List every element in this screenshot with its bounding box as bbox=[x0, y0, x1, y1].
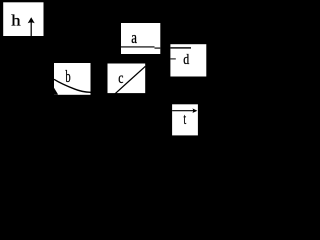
box h (y-axis label patch) bbox=[3, 2, 43, 36]
axis arrow up (head) bbox=[28, 17, 35, 23]
curve a left segment bbox=[121, 46, 155, 47]
box t (x-axis label patch) bbox=[172, 104, 198, 135]
svg-text:c: c bbox=[118, 70, 123, 87]
axis arrow up (shaft) bbox=[30, 20, 32, 36]
svg-text:h: h bbox=[11, 13, 21, 30]
curve a right segment (step down) bbox=[155, 48, 161, 49]
tick on d patch left edge bbox=[170, 58, 175, 59]
black cut at bottom-left of b patch bbox=[54, 88, 58, 95]
axis arrow right (head) bbox=[192, 108, 197, 113]
box a (curve a patch) bbox=[121, 23, 160, 54]
svg-text:a: a bbox=[131, 28, 137, 47]
box b (curve b patch) bbox=[54, 63, 91, 95]
curve d (horizontal line) bbox=[170, 47, 191, 48]
curve c (rising line) bbox=[115, 66, 145, 94]
svg-text:d: d bbox=[183, 52, 189, 68]
box c (curve c patch) bbox=[108, 64, 146, 94]
curve b (decaying) bbox=[54, 79, 91, 92]
svg-text:t: t bbox=[183, 111, 186, 128]
axis arrow right (shaft) bbox=[172, 110, 194, 112]
svg-text:b: b bbox=[65, 67, 70, 86]
box d (curve d patch) bbox=[170, 44, 206, 76]
